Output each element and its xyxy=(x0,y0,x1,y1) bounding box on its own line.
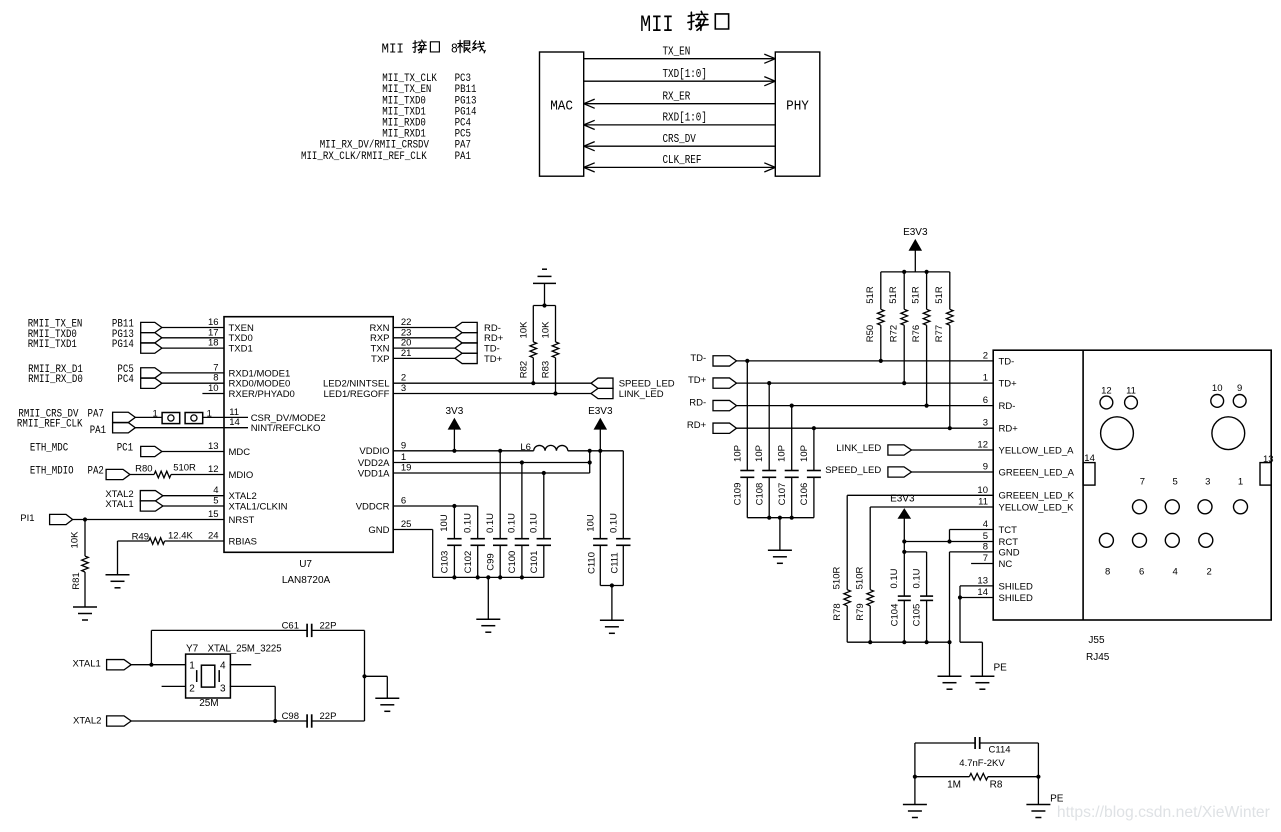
svg-text:10P: 10P xyxy=(732,445,743,462)
svg-text:4.7nF-2KV: 4.7nF-2KV xyxy=(959,758,1005,769)
svg-text:RMII_TXD1: RMII_TXD1 xyxy=(28,339,78,351)
svg-text:VDD2A: VDD2A xyxy=(358,458,390,469)
svg-text:15: 15 xyxy=(208,509,219,520)
svg-text:1: 1 xyxy=(983,373,988,384)
svg-text:XTAL1: XTAL1 xyxy=(72,659,100,670)
svg-text:TD+: TD+ xyxy=(999,379,1018,390)
svg-text:9: 9 xyxy=(983,462,988,473)
svg-text:PHY: PHY xyxy=(786,99,809,115)
svg-text:YELLOW_LED_K: YELLOW_LED_K xyxy=(999,502,1075,513)
svg-text:CLK_REF: CLK_REF xyxy=(663,154,702,167)
svg-text:11: 11 xyxy=(1126,386,1136,397)
svg-text:2: 2 xyxy=(983,350,988,361)
svg-text:C102: C102 xyxy=(463,551,474,574)
svg-text:TXP: TXP xyxy=(371,354,389,365)
svg-text:51R: 51R xyxy=(911,286,922,304)
svg-text:0.1U: 0.1U xyxy=(889,568,900,588)
svg-text:GND: GND xyxy=(999,547,1020,558)
svg-text:10P: 10P xyxy=(799,445,810,462)
svg-text:U7: U7 xyxy=(299,559,312,570)
svg-text:0.1U: 0.1U xyxy=(911,568,922,588)
svg-text:2: 2 xyxy=(189,683,195,694)
svg-text:GND: GND xyxy=(368,525,389,536)
svg-text:RD-: RD- xyxy=(999,401,1016,412)
svg-text:MII: MII xyxy=(382,42,404,58)
svg-text:RMII_RX_D0: RMII_RX_D0 xyxy=(28,374,83,386)
svg-text:8: 8 xyxy=(983,541,988,552)
svg-text:SHILED: SHILED xyxy=(999,593,1033,604)
svg-text:19: 19 xyxy=(401,463,412,474)
svg-text:TXD[1:0]: TXD[1:0] xyxy=(663,68,707,81)
svg-text:10K: 10K xyxy=(70,531,81,549)
svg-text:R72: R72 xyxy=(888,325,899,342)
svg-text:C100: C100 xyxy=(507,551,518,574)
svg-text:5: 5 xyxy=(983,531,988,542)
svg-text:1: 1 xyxy=(189,660,195,671)
svg-text:10P: 10P xyxy=(754,445,765,462)
svg-text:C114: C114 xyxy=(989,745,1011,756)
svg-text:7: 7 xyxy=(1140,477,1145,488)
svg-text:C111: C111 xyxy=(610,552,621,573)
svg-text:LED1/REGOFF: LED1/REGOFF xyxy=(324,389,390,400)
svg-text:1: 1 xyxy=(207,409,212,420)
svg-text:MDIO: MDIO xyxy=(229,470,254,481)
svg-text:C109: C109 xyxy=(733,483,744,506)
svg-text:C106: C106 xyxy=(799,483,810,506)
svg-text:VDDCR: VDDCR xyxy=(356,501,390,512)
svg-text:3: 3 xyxy=(1205,477,1210,488)
svg-text:LINK_LED: LINK_LED xyxy=(836,443,881,454)
svg-text:R50: R50 xyxy=(865,325,876,342)
svg-text:E3V3: E3V3 xyxy=(588,406,613,417)
svg-text:10U: 10U xyxy=(586,514,597,532)
svg-text:TCT: TCT xyxy=(999,525,1018,536)
svg-text:PC4: PC4 xyxy=(117,374,134,386)
svg-text:RJ45: RJ45 xyxy=(1086,652,1110,663)
svg-text:10: 10 xyxy=(1212,383,1223,394)
svg-text:13: 13 xyxy=(977,575,988,586)
svg-text:LAN8720A: LAN8720A xyxy=(282,575,331,586)
svg-text:NINT/REFCLKO: NINT/REFCLKO xyxy=(251,423,321,434)
svg-text:6: 6 xyxy=(983,395,988,406)
svg-text:12: 12 xyxy=(977,440,988,451)
svg-text:0.1U: 0.1U xyxy=(529,513,540,533)
svg-text:51R: 51R xyxy=(888,286,899,304)
svg-text:CRS_DV: CRS_DV xyxy=(663,133,696,146)
svg-text:PA2: PA2 xyxy=(88,466,104,478)
svg-text:R49: R49 xyxy=(132,532,149,543)
svg-text:NC: NC xyxy=(999,559,1013,570)
svg-text:C101: C101 xyxy=(529,551,540,574)
svg-text:VDD1A: VDD1A xyxy=(358,468,390,479)
svg-text:0.1U: 0.1U xyxy=(609,513,620,533)
svg-text:9: 9 xyxy=(1237,383,1242,394)
svg-text:SPEED_LED: SPEED_LED xyxy=(825,465,881,476)
svg-text:ETH_MDIO: ETH_MDIO xyxy=(30,466,74,478)
svg-text:C98: C98 xyxy=(282,711,299,722)
svg-text:18: 18 xyxy=(208,338,219,349)
svg-text:R83: R83 xyxy=(541,361,552,378)
svg-text:R80: R80 xyxy=(135,464,152,475)
svg-text:8: 8 xyxy=(1105,567,1110,578)
svg-text:C107: C107 xyxy=(777,483,788,506)
svg-text:GREEEN_LED_A: GREEEN_LED_A xyxy=(999,467,1075,478)
svg-text:RMII_REF_CLK: RMII_REF_CLK xyxy=(17,419,83,431)
svg-text:6: 6 xyxy=(401,496,406,507)
svg-text:10P: 10P xyxy=(777,445,788,462)
svg-text:6: 6 xyxy=(1139,567,1144,578)
svg-text:11: 11 xyxy=(978,497,988,508)
svg-text:51R: 51R xyxy=(934,286,945,304)
svg-text:0.1U: 0.1U xyxy=(463,513,474,533)
svg-text:RCT: RCT xyxy=(999,537,1019,548)
svg-text:PA1: PA1 xyxy=(455,151,472,163)
svg-text:14: 14 xyxy=(1084,453,1095,464)
svg-text:12.4K: 12.4K xyxy=(168,531,193,542)
svg-text:RXD[1:0]: RXD[1:0] xyxy=(663,112,707,125)
svg-text:XTAL_25M_3225: XTAL_25M_3225 xyxy=(208,644,282,655)
svg-text:10U: 10U xyxy=(439,514,450,532)
svg-text:L6: L6 xyxy=(520,442,531,453)
svg-text:MAC: MAC xyxy=(550,99,573,115)
svg-text:PC1: PC1 xyxy=(117,443,134,455)
svg-text:510R: 510R xyxy=(855,567,866,590)
svg-text:R76: R76 xyxy=(911,325,922,342)
svg-text:PE: PE xyxy=(1050,794,1064,805)
svg-text:12: 12 xyxy=(208,464,219,475)
svg-text:R81: R81 xyxy=(71,572,82,589)
svg-text:MDC: MDC xyxy=(229,447,251,458)
svg-text:51R: 51R xyxy=(865,286,876,304)
svg-text:13: 13 xyxy=(208,441,219,452)
svg-text:C99: C99 xyxy=(485,553,496,570)
svg-text:VDDIO: VDDIO xyxy=(359,446,389,457)
svg-text:14: 14 xyxy=(977,587,988,598)
svg-text:PE: PE xyxy=(994,663,1008,674)
svg-text:12: 12 xyxy=(1101,386,1112,397)
svg-text:R77: R77 xyxy=(934,325,945,342)
svg-text:ETH_MDC: ETH_MDC xyxy=(30,443,69,455)
svg-text:E3V3: E3V3 xyxy=(890,494,915,505)
svg-text:13: 13 xyxy=(1263,454,1274,465)
svg-text:C104: C104 xyxy=(889,604,900,627)
svg-text:GREEEN_LED_K: GREEEN_LED_K xyxy=(999,491,1075,502)
svg-text:XTAL1/CLKIN: XTAL1/CLKIN xyxy=(229,501,288,512)
svg-text:25M: 25M xyxy=(199,698,218,709)
svg-text:TD-: TD- xyxy=(690,353,706,364)
svg-text:XTAL1: XTAL1 xyxy=(105,499,133,510)
svg-text:TX_EN: TX_EN xyxy=(663,45,691,58)
svg-text:NRST: NRST xyxy=(229,515,255,526)
svg-text:0.1U: 0.1U xyxy=(485,513,496,533)
svg-text:510R: 510R xyxy=(173,463,196,474)
svg-text:1: 1 xyxy=(1238,477,1243,488)
svg-text:510R: 510R xyxy=(832,567,843,590)
svg-text:MII: MII xyxy=(640,12,674,38)
svg-text:1M: 1M xyxy=(947,780,961,791)
svg-text:4: 4 xyxy=(983,519,988,530)
svg-text:J55: J55 xyxy=(1088,635,1105,646)
svg-text:XTAL2: XTAL2 xyxy=(73,716,101,727)
svg-text:1: 1 xyxy=(153,409,158,420)
svg-text:Y7: Y7 xyxy=(186,644,199,655)
svg-text:3: 3 xyxy=(220,683,226,694)
svg-text:C110: C110 xyxy=(587,552,598,574)
svg-text:RD+: RD+ xyxy=(687,420,707,431)
svg-text:TD+: TD+ xyxy=(688,375,707,386)
svg-text:1: 1 xyxy=(401,452,406,463)
svg-text:SHILED: SHILED xyxy=(999,581,1033,592)
svg-text:PA1: PA1 xyxy=(90,425,107,437)
svg-text:14: 14 xyxy=(229,417,240,428)
svg-text:PI1: PI1 xyxy=(20,513,34,524)
svg-text:C108: C108 xyxy=(754,483,765,506)
svg-text:LINK_LED: LINK_LED xyxy=(619,389,664,400)
svg-text:RD+: RD+ xyxy=(999,424,1019,435)
svg-text:RD-: RD- xyxy=(689,398,706,409)
svg-text:5: 5 xyxy=(213,496,218,507)
svg-text:TD+: TD+ xyxy=(484,354,503,365)
svg-text:10: 10 xyxy=(208,383,219,394)
svg-text:3V3: 3V3 xyxy=(446,406,464,417)
svg-text:C105: C105 xyxy=(912,604,923,627)
svg-text:YELLOW_LED_A: YELLOW_LED_A xyxy=(999,445,1075,456)
svg-text:C61: C61 xyxy=(282,620,299,631)
svg-text:5: 5 xyxy=(1172,477,1177,488)
svg-text:10: 10 xyxy=(977,485,988,496)
svg-text:24: 24 xyxy=(208,531,219,542)
svg-text:4: 4 xyxy=(220,660,226,671)
svg-text:PA7: PA7 xyxy=(88,408,104,420)
svg-text:8: 8 xyxy=(451,42,458,58)
svg-text:E3V3: E3V3 xyxy=(903,227,928,238)
svg-text:4: 4 xyxy=(1172,567,1177,578)
svg-text:TD-: TD- xyxy=(999,356,1015,367)
svg-text:MII_RX_CLK/RMII_REF_CLK: MII_RX_CLK/RMII_REF_CLK xyxy=(301,151,427,163)
svg-text:R79: R79 xyxy=(855,603,866,620)
svg-text:9: 9 xyxy=(401,440,406,451)
svg-text:C103: C103 xyxy=(440,551,451,574)
svg-text:RX_ER: RX_ER xyxy=(663,90,691,103)
svg-text:3: 3 xyxy=(401,383,406,394)
svg-text:3: 3 xyxy=(983,418,988,429)
svg-text:PG14: PG14 xyxy=(112,339,134,351)
svg-text:21: 21 xyxy=(401,348,412,359)
svg-text:R82: R82 xyxy=(519,361,530,378)
svg-text:TXD1: TXD1 xyxy=(229,344,253,355)
svg-text:7: 7 xyxy=(983,553,988,564)
svg-text:RBIAS: RBIAS xyxy=(229,536,258,547)
svg-text:RXER/PHYAD0: RXER/PHYAD0 xyxy=(229,389,295,400)
svg-text:10K: 10K xyxy=(519,321,530,339)
svg-text:25: 25 xyxy=(401,519,412,530)
svg-text:2: 2 xyxy=(1206,567,1211,578)
svg-text:https://blog.csdn.net/XieWinte: https://blog.csdn.net/XieWinter xyxy=(1057,804,1270,821)
svg-text:R8: R8 xyxy=(990,780,1003,791)
svg-text:R78: R78 xyxy=(832,603,843,620)
svg-text:0.1U: 0.1U xyxy=(507,513,518,533)
svg-text:10K: 10K xyxy=(541,321,552,339)
svg-text:SPEED_LED: SPEED_LED xyxy=(619,379,675,390)
